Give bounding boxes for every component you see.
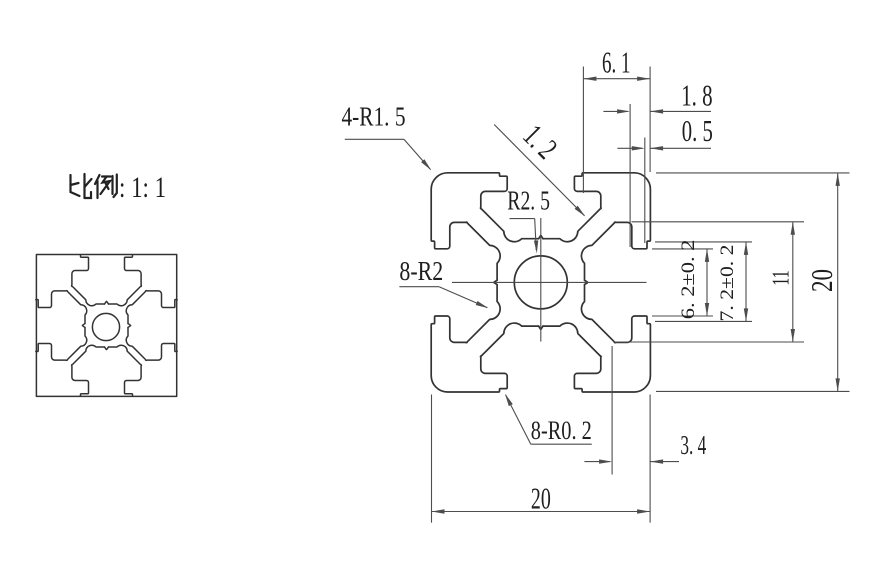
svg-text:8-R2: 8-R2 [399,256,443,286]
svg-text:R2. 5: R2. 5 [507,186,550,216]
svg-text:3. 4: 3. 4 [680,430,706,460]
svg-text:1. 8: 1. 8 [681,78,712,113]
svg-text:20: 20 [531,480,551,515]
svg-text:6. 1: 6. 1 [602,45,631,80]
svg-text:20: 20 [804,269,839,292]
svg-text:4-R1. 5: 4-R1. 5 [342,102,406,132]
svg-text:0. 5: 0. 5 [682,113,713,148]
svg-text:8-R0. 2: 8-R0. 2 [531,416,592,445]
svg-text:11: 11 [768,270,794,285]
svg-text:: 1: 1: : 1: 1 [119,171,166,204]
svg-text:7. 2±0. 2: 7. 2±0. 2 [717,245,738,322]
svg-text:6. 2±0. 2: 6. 2±0. 2 [678,240,699,320]
